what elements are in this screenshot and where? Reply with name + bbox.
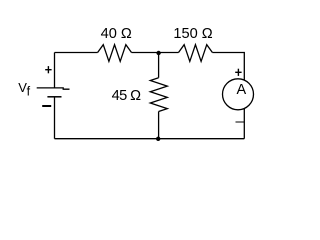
ammeter minus tick [236, 121, 245, 123]
resistor 150 ohm [179, 45, 213, 62]
wire bottom rail [55, 138, 245, 140]
battery minus sign [42, 105, 51, 107]
wire left vertical lower (battery to bottom rail) [54, 97, 56, 139]
ammeter U1 circle [223, 79, 254, 110]
svg-text:40 Ω: 40 Ω [101, 26, 132, 42]
battery plus sign [45, 66, 51, 73]
wire middle vertical lower (R 45 to bottom node) [158, 112, 160, 139]
node junction dot bottom [156, 137, 160, 141]
battery Vf short plate [47, 96, 61, 98]
svg-text:150 Ω: 150 Ω [173, 26, 212, 42]
svg-text:f: f [27, 84, 31, 98]
wire top (left segment from source to R 40 ohm) [55, 52, 98, 54]
node junction dot top [156, 51, 160, 55]
svg-text:A: A [236, 82, 246, 98]
wire middle vertical upper (node to R 45) [158, 53, 160, 78]
svg-text:45 Ω: 45 Ω [112, 88, 141, 104]
wire top (R 40 to middle node) [132, 52, 179, 54]
resistor 45 ohm (vertical) [150, 78, 167, 112]
wire left vertical upper (top rail down to battery) [54, 53, 56, 89]
ammeter plus sign [235, 69, 241, 76]
battery Vf long plate [37, 88, 70, 89]
resistor 40 ohm [98, 45, 132, 62]
wire right vertical (ammeter bottom to bottom rail) [243, 108, 245, 138]
wire top right (R 150 to corner, down to ammeter) [212, 53, 244, 81]
